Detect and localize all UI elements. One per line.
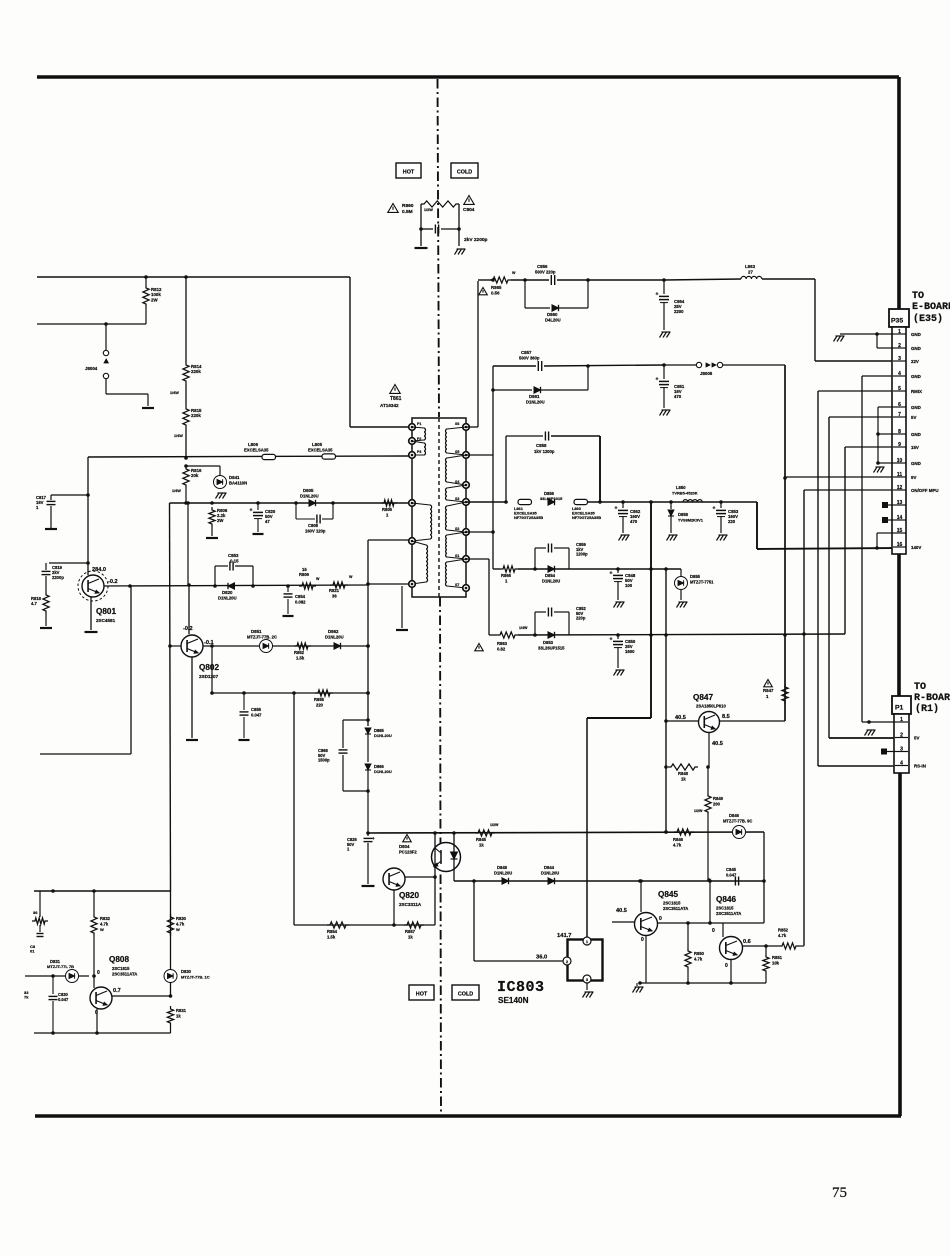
wire bottom border xyxy=(35,1114,901,1118)
svg-text:0: 0 xyxy=(712,928,715,934)
svg-text:0.82: 0.82 xyxy=(497,647,506,652)
label C857 xyxy=(519,350,540,361)
wire Q820 collector xyxy=(405,864,437,879)
transistor Q801 xyxy=(78,571,108,601)
diode D853 xyxy=(548,632,555,638)
label D866 xyxy=(374,764,392,774)
label SE140N xyxy=(498,996,529,1005)
transformer T861 core box xyxy=(412,418,466,597)
transistor Q845 xyxy=(635,913,658,936)
label L806 xyxy=(244,442,269,453)
svg-text:R866: R866 xyxy=(501,573,512,578)
svg-text:D804: D804 xyxy=(399,844,410,849)
svg-text:5V: 5V xyxy=(911,415,916,420)
svg-text:TO: TO xyxy=(914,682,926,693)
svg-text:1.5k: 1.5k xyxy=(296,656,305,661)
svg-text:D1NL20U: D1NL20U xyxy=(494,871,512,876)
svg-text:ON/OFF MPU: ON/OFF MPU xyxy=(911,488,939,493)
label C853S xyxy=(728,509,739,524)
label C848 xyxy=(625,573,636,588)
wire 9V feed vertical xyxy=(783,365,787,721)
svg-text:R860: R860 xyxy=(402,203,414,209)
wire IC803 pin2 row xyxy=(474,960,563,962)
svg-text:1k: 1k xyxy=(681,777,686,782)
svg-text:2SC1815: 2SC1815 xyxy=(716,906,734,911)
svg-text:1/2W: 1/2W xyxy=(490,823,499,827)
capacitor C859 loop xyxy=(535,544,569,570)
svg-text:+: + xyxy=(713,506,716,512)
svg-text:D1NL20U: D1NL20U xyxy=(218,596,237,601)
wire 50V row xyxy=(493,568,500,570)
label R865 xyxy=(491,285,502,296)
wire 140V row b xyxy=(588,500,757,504)
label transformer pins xyxy=(417,422,459,587)
svg-text:L805: L805 xyxy=(312,442,323,447)
transistor Q847 xyxy=(699,712,720,733)
wire pin12 ON/OFF riser xyxy=(804,490,892,945)
svg-text:33L26UP1515: 33L26UP1515 xyxy=(538,646,565,651)
svg-text:8: 8 xyxy=(898,429,901,435)
svg-text:J8004: J8004 xyxy=(85,366,98,371)
transformer primary winding P1-P2 xyxy=(409,424,426,445)
wire 140V row xyxy=(466,500,508,504)
svg-text:40.5: 40.5 xyxy=(675,715,686,721)
svg-text:AT16342: AT16342 xyxy=(380,403,399,408)
wire Q801 collector feed xyxy=(86,457,90,575)
svg-text:1600: 1600 xyxy=(625,649,635,654)
svg-text:S2: S2 xyxy=(455,527,459,531)
label TO E-BOARD xyxy=(912,291,950,325)
label R831 xyxy=(176,1008,187,1019)
label C854B xyxy=(295,594,306,605)
wire 50V tap riser xyxy=(466,455,495,569)
svg-text:R830: R830 xyxy=(176,916,187,921)
svg-text:2SC4581: 2SC4581 xyxy=(96,618,116,623)
label D831 xyxy=(47,959,74,969)
chassis ground D855 xyxy=(677,602,688,608)
svg-text:4.7k: 4.7k xyxy=(100,922,109,927)
connector P35 strip xyxy=(892,327,906,554)
diode D865 xyxy=(365,728,371,762)
svg-text:75: 75 xyxy=(832,1185,847,1201)
svg-text:40.5: 40.5 xyxy=(712,741,723,747)
svg-text:W: W xyxy=(512,271,516,275)
wire D846 to Q845 row xyxy=(762,832,766,923)
svg-text:47: 47 xyxy=(265,519,270,524)
label D856 xyxy=(540,491,563,501)
ground bar R860 xyxy=(415,247,428,249)
label R854 xyxy=(327,929,338,940)
svg-text:J8005: J8005 xyxy=(700,371,713,376)
label D830 xyxy=(181,969,210,980)
resistor R812 xyxy=(143,277,149,307)
ground bar R818 xyxy=(40,627,52,629)
svg-text:R863: R863 xyxy=(497,641,508,646)
label Q802 -0.1 xyxy=(204,640,214,646)
svg-text:220k: 220k xyxy=(191,413,201,418)
diode D830 xyxy=(164,970,177,983)
svg-text:1/4W: 1/4W xyxy=(519,626,528,630)
wire 330V rail row xyxy=(37,275,350,279)
warning triangle R860 xyxy=(388,204,398,213)
label D848 xyxy=(494,865,512,876)
label L861 xyxy=(514,506,543,520)
label R806B xyxy=(299,567,310,577)
diode D862 xyxy=(334,643,341,649)
svg-text:7k: 7k xyxy=(24,995,29,1000)
capacitor C856 xyxy=(551,275,554,285)
svg-text:Q847: Q847 xyxy=(693,693,713,702)
transistor Q846 xyxy=(720,937,743,960)
label L805 xyxy=(308,442,333,453)
svg-text:S5: S5 xyxy=(455,450,459,454)
wire 9V to P35 pin11 xyxy=(785,476,892,478)
svg-text:EXCELSA35: EXCELSA35 xyxy=(308,448,333,453)
wire Q808 bottom row xyxy=(34,1031,171,1035)
resistor R852B xyxy=(294,643,311,649)
svg-text:R851: R851 xyxy=(772,955,783,960)
label TO R-BOARD xyxy=(914,682,950,715)
label R821 xyxy=(329,588,340,599)
svg-text:5: 5 xyxy=(898,386,901,392)
wire Q801 emitter xyxy=(90,597,92,630)
capacitor C850 xyxy=(610,635,624,668)
label L863 xyxy=(745,264,756,275)
wire Q847 base xyxy=(706,733,710,769)
resistor R805 xyxy=(381,500,397,506)
svg-text:Q820: Q820 xyxy=(399,891,419,900)
diode D844 xyxy=(548,878,555,884)
capacitor C808 loop xyxy=(296,503,333,524)
label C859 xyxy=(576,542,588,557)
svg-text:2: 2 xyxy=(900,733,903,739)
svg-text:1k: 1k xyxy=(176,1014,181,1019)
svg-text:C854: C854 xyxy=(295,594,306,599)
diode D855 xyxy=(675,569,688,600)
chassis ground IC803 xyxy=(583,992,594,998)
resistor R846 xyxy=(674,829,694,835)
wire IC803 pin2 riser xyxy=(472,879,476,961)
label IC803 141.7 xyxy=(557,933,572,939)
svg-text:SE140N: SE140N xyxy=(498,996,529,1005)
label J8004 xyxy=(85,366,98,371)
wire R821 to pin junction xyxy=(368,540,409,584)
wire base drive row xyxy=(170,501,411,505)
chassis ground D841 xyxy=(216,493,227,499)
diode D820 xyxy=(228,583,235,589)
wire P35 pin15 link xyxy=(877,533,893,548)
wire D841 branch xyxy=(184,464,220,476)
connector P1 pins xyxy=(895,717,926,769)
svg-text:14: 14 xyxy=(897,515,903,521)
wire regulator vertical xyxy=(366,584,370,793)
svg-text:+: + xyxy=(250,508,253,514)
wire 15V row xyxy=(489,632,845,637)
svg-text:15: 15 xyxy=(897,528,903,534)
wire Q802 output row xyxy=(203,644,370,648)
diode D846 xyxy=(733,826,746,839)
resistor R831 xyxy=(167,1006,173,1033)
wire regulator vertical b xyxy=(366,791,370,836)
svg-text:D846: D846 xyxy=(729,813,740,818)
svg-text:1200p: 1200p xyxy=(576,552,588,557)
svg-text:D1NL20U: D1NL20U xyxy=(526,400,545,405)
label R832 xyxy=(100,916,111,932)
chassis ground D858 xyxy=(667,535,678,541)
svg-text:2200: 2200 xyxy=(674,309,684,314)
label Q846 0.6 xyxy=(743,939,751,945)
label R851 xyxy=(772,955,783,966)
svg-text:P2: P2 xyxy=(417,437,421,441)
warning triangle C804 xyxy=(464,196,474,205)
IC803 pin1 xyxy=(583,937,591,945)
svg-text:5V: 5V xyxy=(914,736,919,741)
pad P1 pin3 xyxy=(882,749,896,754)
svg-text:2SC3511ATA: 2SC3511ATA xyxy=(112,972,137,977)
label D860 xyxy=(545,312,561,323)
svg-text:20k: 20k xyxy=(191,473,199,478)
svg-text:P1: P1 xyxy=(417,422,421,426)
label C817 xyxy=(36,495,47,510)
svg-text:100: 100 xyxy=(625,583,633,588)
wire top border bus xyxy=(37,75,899,79)
wire Q808 collector xyxy=(112,994,172,998)
svg-text:T861: T861 xyxy=(390,396,402,402)
label C808 xyxy=(305,523,326,534)
transformer secondary winding S2 xyxy=(446,532,470,562)
chassis ground C853S xyxy=(717,535,728,541)
resistor R860 xyxy=(421,201,459,212)
terminal bar J8004 xyxy=(142,407,154,409)
optocoupler D804 xyxy=(432,843,461,872)
hot/cold isolation dash-dot line xyxy=(438,79,442,1115)
jumper J8004 xyxy=(103,324,108,394)
label T861 xyxy=(380,396,402,408)
svg-text:C853: C853 xyxy=(228,553,239,558)
svg-text:COLD: COLD xyxy=(458,992,473,998)
chassis ground C850 xyxy=(614,670,625,676)
wire Q820 emitter xyxy=(392,890,396,927)
wire Q845 output row xyxy=(657,921,764,925)
svg-text:R821: R821 xyxy=(329,588,340,593)
label D851 xyxy=(247,629,277,640)
svg-text:Q808: Q808 xyxy=(109,955,129,964)
svg-text:R805: R805 xyxy=(382,507,393,512)
svg-text:R849: R849 xyxy=(713,796,724,801)
capacitor C853 loop xyxy=(215,562,253,587)
wire second rail row xyxy=(37,307,146,326)
wire long vertical left bus xyxy=(170,503,171,891)
label Q845 0 right xyxy=(659,916,662,922)
label C851 xyxy=(674,384,685,399)
svg-text:10k: 10k xyxy=(772,961,780,966)
transistor Q820 xyxy=(383,868,405,890)
svg-text:2SD1207: 2SD1207 xyxy=(199,674,219,679)
svg-text:0: 0 xyxy=(659,916,662,922)
svg-text:0.047: 0.047 xyxy=(251,713,262,718)
label C804 value xyxy=(464,237,488,243)
svg-text:Q845: Q845 xyxy=(658,890,678,899)
wire 15V to pin9 riser xyxy=(845,447,892,634)
svg-text:+: + xyxy=(656,292,659,298)
svg-text:C804: C804 xyxy=(463,207,475,213)
svg-text:220p: 220p xyxy=(576,616,586,621)
svg-text:D1NL20U: D1NL20U xyxy=(374,733,392,738)
svg-text:500V 360p: 500V 360p xyxy=(519,356,540,361)
wire opto feed row xyxy=(368,830,764,835)
wire 9V row b xyxy=(544,363,666,368)
svg-text:2: 2 xyxy=(898,343,901,349)
resistor R847 xyxy=(782,684,788,704)
diode D805 xyxy=(309,500,316,506)
svg-text:R847: R847 xyxy=(763,688,774,693)
svg-text:MTZJT-77B. 9C: MTZJT-77B. 9C xyxy=(723,819,752,824)
svg-text:0: 0 xyxy=(97,970,100,976)
jumper J8005 xyxy=(664,362,785,367)
label Q846 0 base xyxy=(712,928,715,934)
wire Q802 lower row xyxy=(210,646,370,695)
svg-text:D861: D861 xyxy=(529,394,540,399)
svg-text:HOT: HOT xyxy=(403,170,415,176)
svg-text:36: 36 xyxy=(33,910,38,915)
terminal bar C854B xyxy=(283,615,294,617)
wire Q801 output row xyxy=(104,582,370,588)
svg-text:R857: R857 xyxy=(405,929,416,934)
svg-text:470: 470 xyxy=(674,394,682,399)
diode D860 branch xyxy=(525,280,588,311)
svg-text:D1NL20U: D1NL20U xyxy=(300,494,319,499)
svg-text:S7: S7 xyxy=(455,583,459,587)
svg-text:4: 4 xyxy=(898,371,901,377)
svg-text:1: 1 xyxy=(900,717,903,723)
wire P35 gnd pins 6-8-10 xyxy=(876,407,893,465)
svg-text:D805: D805 xyxy=(303,488,314,493)
HOT label box (top) xyxy=(396,163,421,178)
transformer secondary winding S1 xyxy=(446,559,470,591)
capacitor C853S xyxy=(713,502,727,533)
svg-text:8.5: 8.5 xyxy=(722,714,730,720)
svg-text:2SC3511ATA: 2SC3511ATA xyxy=(663,906,688,911)
wire Q845 collector xyxy=(639,879,643,912)
svg-text:1/4W: 1/4W xyxy=(172,489,181,493)
label R860 0.5M xyxy=(402,203,414,215)
svg-text:500V 220p: 500V 220p xyxy=(535,270,556,275)
capacitor C820 xyxy=(250,503,264,532)
svg-text:D855: D855 xyxy=(690,574,701,579)
wire Q808 right leg xyxy=(170,891,172,996)
label C855 xyxy=(251,707,262,718)
resistor R863 xyxy=(497,626,528,638)
svg-text:PC123F2: PC123F2 xyxy=(399,850,417,855)
svg-text:D1NL20U: D1NL20U xyxy=(541,871,559,876)
label Q801 284.0 xyxy=(92,567,106,573)
svg-text:S6: S6 xyxy=(455,422,459,426)
svg-text:GND: GND xyxy=(911,461,921,466)
transformer secondary winding S6 xyxy=(446,424,470,459)
label R830 xyxy=(176,916,187,932)
svg-text:4.7k: 4.7k xyxy=(694,957,703,962)
svg-text:220k: 220k xyxy=(191,369,201,374)
capacitor C826 xyxy=(364,836,376,884)
ground bar R806 xyxy=(206,537,218,539)
label R846 xyxy=(673,837,684,848)
svg-text:R852: R852 xyxy=(778,928,789,933)
transformer secondary winding S4 xyxy=(446,485,470,505)
wire Q820 bottom row xyxy=(294,693,435,925)
svg-text:+: + xyxy=(615,506,618,512)
svg-text:1.5k: 1.5k xyxy=(327,935,336,940)
wire Q808 emitter xyxy=(96,1009,98,1033)
label C853 xyxy=(228,553,239,564)
label C819 xyxy=(52,565,64,580)
resistor R806B xyxy=(299,577,320,589)
svg-text:36.0: 36.0 xyxy=(536,955,547,961)
label L860 xyxy=(572,506,601,520)
svg-text:MTZJT-77B. 1C: MTZJT-77B. 1C xyxy=(181,975,210,980)
svg-text:10: 10 xyxy=(897,458,903,464)
terminal bar T861 stub xyxy=(396,629,408,631)
wire right bus P1 to bottom xyxy=(898,773,902,1116)
label R852B xyxy=(294,650,305,661)
label Q802 xyxy=(199,663,219,679)
label R847 xyxy=(763,688,774,699)
wire 9V row xyxy=(491,366,536,392)
HOT label box (bottom) xyxy=(409,985,434,1000)
resistor R821 xyxy=(330,575,353,588)
wire right bus to P35 xyxy=(897,77,901,310)
label R816 xyxy=(191,468,202,478)
svg-text:D1NL20U: D1NL20U xyxy=(542,579,560,584)
capacitor C868 loop xyxy=(339,720,369,791)
svg-text:0.5M: 0.5M xyxy=(402,209,413,215)
IC803 pin2 xyxy=(563,957,571,965)
IC U803 body xyxy=(568,940,603,981)
resistor R832 xyxy=(91,891,97,976)
svg-text:R850: R850 xyxy=(694,951,705,956)
label C830 xyxy=(24,990,69,1002)
svg-text:S4: S4 xyxy=(455,480,459,484)
svg-text:1/4W: 1/4W xyxy=(174,434,183,438)
svg-text:NF70GT25A35B: NF70GT25A35B xyxy=(514,515,543,520)
wire P35 gnd pins 1-2 xyxy=(840,332,893,348)
wire rail to transformer pin1 xyxy=(350,277,409,427)
wire Q846 collector row xyxy=(742,944,779,948)
svg-text:TVRB5-4520K: TVRB5-4520K xyxy=(672,491,698,496)
svg-text:6: 6 xyxy=(898,402,901,408)
resistor R806 xyxy=(209,507,215,536)
svg-text:P3: P3 xyxy=(417,450,421,454)
wire 15V tap riser xyxy=(466,559,489,635)
terminal bar Q801 xyxy=(85,631,98,633)
capacitor C804 xyxy=(421,225,459,234)
svg-text:01: 01 xyxy=(30,949,35,954)
capacitor C851 xyxy=(656,365,670,408)
svg-text:D853: D853 xyxy=(543,640,554,645)
label D861 xyxy=(526,394,545,405)
svg-text:R848: R848 xyxy=(678,771,689,776)
svg-text:D851: D851 xyxy=(251,629,262,634)
svg-text:7: 7 xyxy=(898,412,901,418)
svg-text:1k: 1k xyxy=(479,843,484,848)
diode D841 xyxy=(214,476,227,489)
svg-text:36: 36 xyxy=(332,594,337,599)
wire Q845 gnd row xyxy=(638,981,766,985)
svg-text:R855: R855 xyxy=(314,697,325,702)
svg-text:1/2W: 1/2W xyxy=(424,208,433,212)
resistor R814 xyxy=(183,277,189,384)
wire T861 bottom stub xyxy=(401,586,403,628)
chassis ground C864 xyxy=(660,332,671,338)
